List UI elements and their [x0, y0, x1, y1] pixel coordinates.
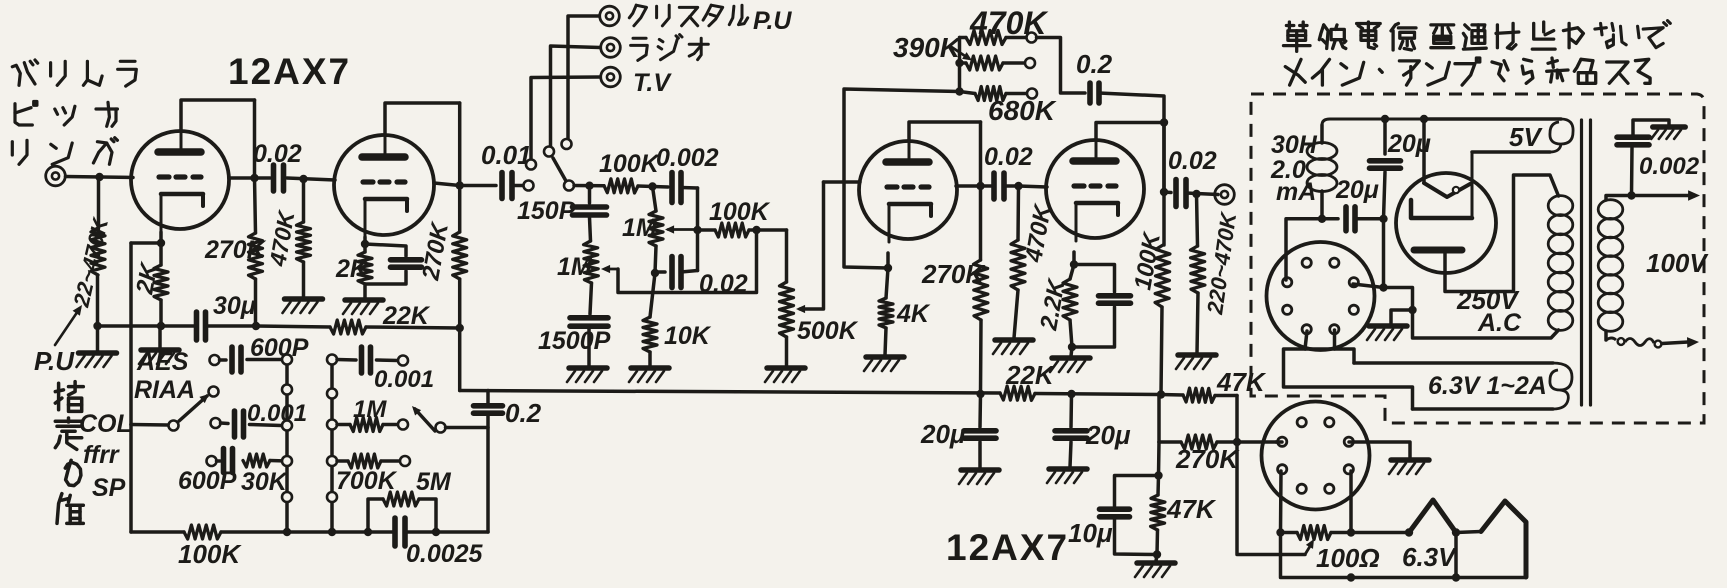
node 22K right	[456, 324, 464, 332]
label 220~470K	[1202, 209, 1241, 317]
svg-text:1M: 1M	[353, 396, 387, 423]
svg-text:47K: 47K	[1166, 494, 1217, 524]
wire heater pin left down	[1279, 471, 1283, 533]
node psu pin right	[1379, 283, 1387, 291]
svg-text:6.3V 1~2A: 6.3V 1~2A	[1428, 372, 1547, 400]
svg-text:0.002: 0.002	[656, 144, 719, 172]
wire crystal to contact	[568, 16, 599, 139]
label 2K cathode1	[131, 259, 163, 297]
wire TV to contact	[531, 77, 600, 160]
svg-text:1M: 1M	[622, 214, 658, 242]
svg-text:12AX7: 12AX7	[228, 51, 351, 92]
contact bank1 0.001 left	[211, 418, 221, 428]
resistor 4K V2a cathode	[879, 268, 893, 355]
label 390K	[893, 32, 962, 63]
wire 6.3V left loop	[1284, 349, 1413, 409]
node V2a cathode	[884, 264, 892, 272]
svg-text:0.0025: 0.0025	[406, 540, 484, 568]
wire V2a plate top	[909, 122, 981, 141]
resistor 270K V1b plate load	[453, 186, 467, 329]
svg-text:COL: COL	[79, 410, 132, 438]
label COL	[79, 410, 132, 438]
node V2b cathode	[1070, 260, 1078, 268]
5V winding loop	[1472, 119, 1573, 152]
capacitor 0.001 bank2 row1	[337, 347, 398, 373]
resistor 470K grid4 leak	[1011, 186, 1025, 338]
ground V2b cathode	[1050, 347, 1090, 372]
label 100V	[1646, 248, 1709, 278]
svg-text:22K: 22K	[1005, 360, 1056, 390]
node V1a cathode	[157, 239, 165, 247]
svg-text:6.3V: 6.3V	[1402, 542, 1458, 572]
contact phono	[524, 181, 534, 191]
svg-text:10K: 10K	[664, 322, 712, 350]
bottom rail EQ	[131, 425, 488, 533]
node primary top	[1627, 191, 1635, 199]
terminal output	[1215, 185, 1235, 205]
contact bank1 600P left	[210, 355, 220, 365]
wire socket right pin to ground	[1349, 442, 1410, 458]
wire 0.002 right down	[696, 188, 700, 271]
label 0.002 line	[1639, 153, 1700, 180]
resistor 2K V1a cathode	[154, 243, 168, 326]
resistor 100K filter in	[604, 179, 668, 193]
node bias right	[1233, 438, 1241, 446]
svg-text:0.02: 0.02	[1168, 147, 1217, 175]
bus contacts bank1	[282, 355, 292, 503]
wire node to HV return	[1384, 288, 1413, 311]
svg-text:270K: 270K	[204, 236, 267, 264]
svg-text:100Ω: 100Ω	[1316, 543, 1380, 573]
svg-text:100K: 100K	[709, 198, 771, 226]
node HV return	[1408, 306, 1416, 314]
svg-text:A.C: A.C	[1477, 309, 1522, 337]
resistor 700K bank2 row3	[337, 454, 400, 468]
svg-text:P.U: P.U	[34, 346, 75, 376]
node bank1 to rail	[283, 528, 291, 536]
capacitor 0.02 interstage1	[274, 165, 284, 191]
label 0.02 interstage1	[253, 140, 302, 168]
label 6.3V 1~2A	[1428, 372, 1547, 400]
node V1b cathode	[361, 240, 369, 248]
capacitor 30u bypass	[197, 312, 206, 340]
ground psu	[1367, 326, 1407, 340]
node psu top1	[1381, 115, 1389, 123]
ground 220~470K	[1176, 355, 1216, 369]
ground 20u first	[959, 470, 999, 484]
terminal crystal PU	[600, 6, 620, 26]
capacitor 0.02 filter	[655, 257, 698, 288]
label 0.0025	[406, 540, 484, 568]
wiper 1M bass	[601, 230, 757, 293]
node fb row3	[955, 87, 963, 95]
svg-text:5V: 5V	[1509, 122, 1543, 152]
potentiometer 1M treble	[649, 187, 663, 274]
capacitor 0.002	[672, 173, 698, 203]
capacitor 10u	[1100, 509, 1130, 517]
node treble pot tap	[693, 226, 701, 234]
wire output node vertical	[1162, 123, 1166, 246]
svg-text:P.U: P.U	[753, 7, 792, 35]
ground 4K	[864, 357, 904, 371]
heater tent 2	[1481, 501, 1526, 577]
label 250V A.C	[1456, 285, 1522, 337]
svg-text:20μ: 20μ	[1335, 176, 1379, 204]
resistor 22K NFB	[330, 320, 460, 334]
potentiometer 100ohm hum	[1281, 526, 1352, 540]
triode V2b	[1046, 138, 1144, 241]
label 100K filter out	[709, 198, 771, 226]
svg-text:100K: 100K	[178, 539, 242, 569]
node rail 100K	[1157, 390, 1165, 398]
node 100ohm left	[1276, 528, 1284, 536]
feedback return wire	[844, 89, 960, 268]
node V1b plate	[456, 181, 464, 189]
label 1M bass	[557, 253, 593, 281]
wire top B wire	[1424, 117, 1561, 121]
node tent1 right	[1452, 528, 1460, 536]
label 6.3V	[1402, 542, 1458, 572]
svg-text:500K: 500K	[797, 317, 859, 345]
contact TV	[526, 160, 536, 170]
svg-text:ffrr: ffrr	[83, 441, 120, 469]
contact fb row3	[1027, 89, 1037, 99]
wire 0.01 to contact	[512, 184, 523, 188]
resistor 22~470K input load	[91, 228, 105, 275]
label 0.002	[656, 144, 719, 172]
label RIAA	[134, 376, 195, 404]
label 470K grid4	[1020, 201, 1057, 265]
contact radio	[544, 147, 554, 157]
label 600P row3	[178, 467, 237, 495]
arrow P.U to resistor	[55, 305, 82, 345]
capacitor 0.002 line	[1617, 137, 1649, 195]
capacitor 0.001 row2	[221, 411, 282, 437]
node 270K bottom	[252, 322, 260, 330]
wire cathode bus y326	[98, 324, 257, 328]
label 0.02 output	[1168, 147, 1217, 175]
wire V1a cathode branch	[131, 232, 161, 425]
label 0.02 interstage3	[984, 143, 1033, 171]
label 1M bank2	[353, 396, 387, 423]
wire 10u bottom return	[1115, 517, 1158, 555]
triode V1b	[334, 133, 434, 238]
B+ rail	[460, 391, 1237, 396]
capacitor 1500P	[570, 318, 608, 366]
label 20u first	[920, 419, 966, 449]
capacitor 0.2 coupling	[474, 391, 503, 414]
wire V2b plate top	[1096, 123, 1164, 141]
capacitor 20u first	[964, 394, 996, 468]
wire fb row1 to 0.2 cap	[1037, 38, 1086, 94]
node 5M left	[364, 528, 372, 536]
svg-text:100V: 100V	[1646, 248, 1709, 278]
svg-text:1M: 1M	[557, 253, 593, 281]
wire jack to tube1 grid	[66, 177, 134, 178]
wire tube1 out to cap	[229, 176, 270, 180]
svg-text:0.02: 0.02	[253, 140, 302, 168]
capacitor 600P row3	[217, 449, 233, 473]
wire psu mid down to pin	[1382, 219, 1386, 288]
svg-text:700K: 700K	[336, 467, 398, 495]
node 150P top	[585, 182, 593, 190]
wire to 22K	[256, 326, 330, 327]
label 270K bias	[1175, 444, 1240, 474]
socket V1/V2 heater view	[1262, 402, 1370, 510]
contact crystal	[562, 139, 572, 149]
label 600P row1	[250, 334, 309, 362]
capacitor V1b cathode bypass	[365, 244, 422, 284]
label power note line2	[1285, 58, 1650, 85]
rectifier plate	[1414, 247, 1462, 254]
svg-text:270K: 270K	[1175, 444, 1240, 474]
arrow AC hot out	[1632, 190, 1701, 201]
contact 700K right	[400, 456, 410, 466]
label 10u	[1068, 518, 1113, 548]
svg-text:T.V: T.V	[633, 69, 672, 97]
node V2b plate junction	[1160, 118, 1168, 126]
svg-text:600P: 600P	[178, 467, 237, 495]
wire Bplus out to socket	[1286, 219, 1322, 280]
svg-text:270K: 270K	[921, 259, 986, 289]
primary bottom cord	[1606, 331, 1699, 348]
resistor 390K fb row2	[960, 56, 1026, 70]
ground 1500P	[567, 368, 607, 382]
label 470K grid2	[264, 208, 300, 269]
bus contacts bank2	[327, 355, 337, 503]
node bias bottom	[1153, 550, 1161, 558]
switch2 arm	[412, 406, 435, 431]
node rect cathode top	[1420, 115, 1428, 123]
wire down to bottom bus	[458, 328, 462, 391]
capacitor 20u psu inline	[1322, 207, 1384, 231]
wire plate3 down to coupling	[979, 122, 983, 186]
capacitor V2b cathode bypass	[1072, 265, 1131, 348]
capacitor 0.02 output	[1176, 180, 1218, 207]
node 2K bottom	[157, 322, 165, 330]
wire V1a plate to top rail	[181, 100, 255, 131]
svg-text:0.001: 0.001	[374, 366, 434, 393]
wire bias node to socket pin	[1237, 440, 1276, 444]
node grid4	[1014, 182, 1022, 190]
ground bias	[1135, 555, 1175, 578]
label pickup text line1 (katakana)	[12, 60, 136, 86]
node rail 270K	[976, 390, 984, 398]
wire socket left pin	[1276, 440, 1282, 444]
wire radio to contact	[551, 46, 601, 147]
label 100K plate4	[1129, 229, 1166, 292]
ground V1b cathode	[343, 300, 383, 314]
node 0.02 left	[651, 269, 659, 277]
wire V1b cathode	[363, 237, 367, 244]
wire out to cap	[1164, 190, 1171, 194]
label 100ohm	[1316, 543, 1380, 573]
label 0.01	[481, 140, 532, 170]
node 100ohm right	[1347, 528, 1355, 536]
node input junction	[95, 173, 103, 181]
svg-text:2K: 2K	[335, 255, 370, 283]
triode V2a	[859, 139, 957, 242]
choke 30H	[1307, 125, 1337, 192]
svg-text:20μ: 20μ	[1085, 420, 1131, 450]
label 0.02 filter	[699, 270, 748, 298]
wire primary top	[1606, 196, 1632, 201]
node 10u row	[1154, 471, 1162, 479]
label AES	[136, 348, 189, 376]
wire V2a cathode	[886, 253, 890, 268]
wire tube2 to node	[434, 183, 460, 186]
wire pole to filter	[574, 184, 604, 188]
contact bank1 row0 unused	[209, 387, 219, 397]
heater bottom rail	[1281, 533, 1527, 578]
svg-text:1500P: 1500P	[538, 327, 611, 355]
primary winding	[1598, 200, 1623, 332]
node tent1 left	[1405, 528, 1413, 536]
resistor 47K bias lower	[1151, 476, 1165, 555]
node V2a plate	[976, 182, 984, 190]
rectifier tube	[1396, 173, 1496, 273]
wire to tube4 grid	[1019, 186, 1048, 187]
wire heater pin right down	[1349, 471, 1353, 533]
label 270K plate3	[921, 259, 986, 289]
svg-text:mA: mA	[1276, 178, 1316, 206]
label 47K rail	[1216, 367, 1267, 397]
resistor 470K fb row1	[960, 31, 1027, 45]
wire 5V return into tube	[1471, 152, 1474, 218]
wire input shunt down	[98, 177, 99, 351]
label 700K	[336, 467, 398, 495]
svg-text:0.001: 0.001	[247, 400, 307, 427]
switch1 arm	[179, 394, 209, 421]
label 20u psu inline	[1335, 176, 1379, 204]
label 10K	[664, 322, 712, 350]
svg-text:12AX7: 12AX7	[946, 527, 1069, 568]
selector pole	[564, 181, 574, 191]
label 150P	[517, 197, 576, 225]
wire choke bottom	[1320, 191, 1324, 219]
bus bank2 vertical	[330, 360, 334, 533]
resistor 220~470K output load	[1191, 194, 1205, 353]
ground V1a cathode	[139, 326, 179, 364]
svg-text:47K: 47K	[1216, 367, 1267, 397]
wire grid V2a	[824, 180, 861, 184]
label 30K row3	[241, 468, 289, 496]
svg-text:0.2: 0.2	[505, 398, 542, 428]
label 12AX7 second	[946, 527, 1069, 568]
label pickup text line2	[15, 102, 117, 127]
wire plate to HV top	[1445, 175, 1559, 292]
feedback bus	[958, 38, 962, 92]
ground 470K grid2	[283, 299, 323, 313]
selector arm	[553, 158, 566, 181]
label 2K V1b	[335, 255, 370, 283]
label 0.001 row2	[247, 400, 307, 427]
svg-text:0.01: 0.01	[481, 140, 532, 170]
svg-text:RIAA: RIAA	[134, 376, 195, 404]
capacitor 0.2 feedback	[1090, 83, 1099, 103]
ground 0.002	[1651, 127, 1685, 139]
wire choke top corner	[1322, 119, 1424, 125]
wire 47K col	[1157, 442, 1161, 476]
svg-text:0.002: 0.002	[1639, 153, 1700, 180]
resistor 2.2K V2b cathode	[1063, 265, 1077, 348]
svg-text:0.2: 0.2	[1076, 49, 1113, 79]
resistor 30K row3	[243, 454, 287, 467]
wire 0.2 fb to plate node	[1099, 93, 1164, 190]
capacitor 20u second	[1055, 394, 1087, 467]
label 100K EQ	[178, 539, 242, 569]
node heater rail 2	[1452, 573, 1460, 581]
label 指定の値 (vertical)	[55, 382, 83, 524]
rectifier cathode bracket	[1411, 200, 1472, 218]
label 270K plate1	[204, 236, 267, 264]
label 0.001 bank2	[374, 366, 434, 393]
capacitor 150P	[573, 186, 607, 241]
capacitor 0.01 coupling	[502, 173, 512, 199]
wiper 500K to V2a grid	[796, 182, 824, 313]
label pickup text line3	[12, 138, 117, 165]
wire tent1 right down	[1454, 533, 1458, 578]
node resistor bottom	[93, 322, 101, 330]
capacitor 600P row1	[220, 347, 288, 372]
wiper arrow 390K	[950, 46, 972, 61]
label 500K	[797, 317, 859, 345]
node V1a plate/signal	[250, 174, 258, 182]
label 22~470K	[68, 214, 113, 310]
svg-text:150P: 150P	[517, 197, 576, 225]
resistor 100K EQ rail	[184, 525, 221, 539]
resistor 1M bank2 row2	[337, 418, 398, 432]
bus bank1 vertical	[285, 360, 289, 533]
node output	[1160, 188, 1168, 196]
wire heater row right	[1351, 531, 1409, 535]
resistor 100K V2b plate load	[1155, 245, 1170, 395]
svg-text:SP: SP	[92, 474, 126, 502]
heater tent 1	[1409, 500, 1456, 533]
capacitor 0.0025	[395, 518, 405, 546]
ground socket right	[1389, 460, 1429, 474]
wire switch2 pole to 0.2	[446, 426, 489, 430]
svg-text:22K: 22K	[382, 302, 431, 330]
wire to psu ground	[1391, 310, 1413, 324]
label 22K NFB	[382, 302, 431, 330]
svg-text:5M: 5M	[416, 468, 452, 496]
svg-text:30μ: 30μ	[213, 292, 256, 320]
label crystal PU	[629, 5, 792, 35]
wire node to 0.01	[460, 184, 496, 188]
svg-text:680K: 680K	[988, 95, 1057, 126]
contact fb row2	[1025, 58, 1035, 68]
label 270K plate2	[417, 219, 454, 283]
wire cap to tube2 grid	[287, 178, 335, 180]
resistor 22K rail	[1000, 386, 1035, 400]
label 47K bias lower	[1166, 494, 1217, 524]
resistor 680K fb row3	[960, 87, 1028, 101]
wiper 100ohm	[1237, 442, 1314, 555]
label 5M	[416, 468, 452, 496]
svg-text:10μ: 10μ	[1068, 518, 1113, 548]
node 0.0025 right	[432, 528, 440, 536]
svg-text:AES: AES	[136, 348, 189, 376]
label 1M treble	[622, 214, 658, 242]
dashed supply box	[1251, 94, 1704, 423]
label 470K feedback	[969, 5, 1049, 41]
wire 100K plate col down	[1157, 395, 1161, 443]
label 100K filter in	[599, 150, 661, 178]
node bank2 to rail	[328, 528, 336, 536]
contact 0.001 bank2 right	[398, 356, 408, 366]
label P.U	[34, 346, 75, 376]
